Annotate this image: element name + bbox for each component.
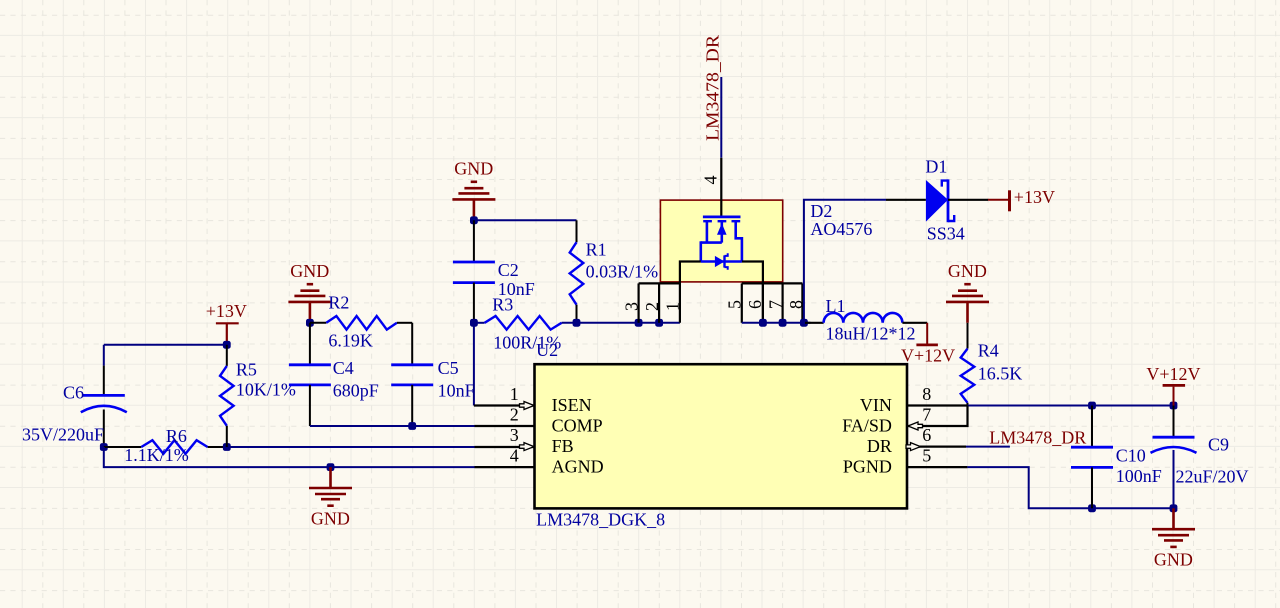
- input arrow pin3: [520, 443, 535, 451]
- ground GND (top): [473, 200, 476, 220]
- svg-text:D2: D2: [810, 201, 832, 221]
- wire FA/SD to VIN: [907, 406, 968, 427]
- node pin3 junction: [635, 319, 643, 327]
- resistor R1: [576, 220, 578, 242]
- input arrow pin1: [520, 402, 535, 410]
- resistor R2: [310, 322, 326, 324]
- pin bar 5-6-7-8: [742, 282, 803, 284]
- svg-text:ISEN: ISEN: [552, 395, 592, 415]
- ground GND (bottom right): [1172, 508, 1175, 528]
- capacitor C9: [1173, 406, 1175, 437]
- pin 4 (gate): [720, 158, 722, 217]
- power +13V right: [988, 199, 1010, 201]
- svg-text:DR: DR: [867, 436, 892, 456]
- capacitor C10: [1091, 406, 1093, 447]
- svg-text:6: 6: [922, 425, 931, 445]
- body diode of D2: [715, 256, 725, 267]
- pin bar 3-2-1: [639, 282, 680, 284]
- wire PGND net: [907, 466, 967, 468]
- node C10/PGND junction: [1088, 504, 1096, 512]
- pin 4 AGND lead: [475, 466, 535, 468]
- svg-text:C9: C9: [1208, 434, 1229, 454]
- svg-text:C10: C10: [1116, 445, 1146, 465]
- svg-text:10nF: 10nF: [438, 381, 475, 401]
- capacitor C4: [309, 323, 311, 365]
- pin 5: [741, 283, 743, 322]
- svg-text:COMP: COMP: [552, 416, 603, 436]
- wire ISEN net: [473, 323, 475, 406]
- arrow pin7 FA/SD: [908, 422, 923, 430]
- pin 3: [637, 283, 639, 322]
- svg-text:7: 7: [922, 404, 931, 424]
- pin 2 COMP lead: [475, 425, 535, 427]
- wire FB net: [227, 446, 475, 448]
- power V+12V under L1: [926, 323, 928, 344]
- svg-text:22uF/20V: 22uF/20V: [1176, 467, 1249, 487]
- diode D1 SS34: [886, 199, 926, 201]
- svg-text:7: 7: [765, 300, 785, 309]
- svg-text:0.03R/1%: 0.03R/1%: [586, 262, 659, 282]
- resistor R5: [226, 345, 228, 366]
- svg-text:C5: C5: [438, 358, 459, 378]
- svg-text:10K/1%: 10K/1%: [236, 380, 296, 400]
- svg-text:16.5K: 16.5K: [978, 364, 1023, 384]
- node pin6 junction: [759, 319, 767, 327]
- transistor D2 mosfet symbol: [703, 215, 741, 218]
- svg-text:LM3478_DR: LM3478_DR: [702, 35, 722, 141]
- svg-text:4: 4: [510, 445, 519, 465]
- resistor R6: [104, 446, 142, 448]
- svg-text:5: 5: [922, 445, 931, 465]
- inductor L1: [805, 322, 824, 324]
- resistor R3: [474, 322, 485, 324]
- svg-text:C2: C2: [498, 260, 519, 280]
- pin 6: [762, 283, 764, 322]
- svg-text:1.1K/1%: 1.1K/1%: [124, 445, 189, 465]
- wire drain bus: [742, 322, 811, 324]
- pin 7: [781, 283, 783, 322]
- node +13V/R5 junction: [223, 341, 231, 349]
- node pin2 junction: [655, 319, 663, 327]
- ground GND (R4): [966, 303, 969, 323]
- svg-text:6.19K: 6.19K: [328, 331, 373, 351]
- pin 8: [801, 283, 803, 322]
- svg-text:R3: R3: [492, 295, 513, 315]
- wire source-side black: [680, 262, 701, 323]
- svg-text:R6: R6: [166, 426, 187, 446]
- pin 2: [658, 283, 660, 322]
- wire sense bus: [562, 322, 680, 324]
- svg-text:VIN: VIN: [860, 395, 892, 415]
- svg-text:R4: R4: [978, 340, 999, 360]
- capacitor C2: [473, 220, 475, 261]
- transistor D2 body box: [660, 200, 782, 282]
- svg-text:AO4576: AO4576: [810, 219, 872, 239]
- pin 3 FB lead: [475, 446, 535, 448]
- capacitor C6: [103, 345, 105, 366]
- svg-text:U2: U2: [536, 340, 558, 360]
- node R2/C4 junction: [306, 319, 314, 327]
- wire gate net: [720, 77, 722, 158]
- power +13V left: [216, 322, 239, 324]
- svg-text:18uH/12*12: 18uH/12*12: [826, 324, 916, 344]
- svg-text:D1: D1: [925, 156, 947, 176]
- svg-text:V+12V: V+12V: [901, 346, 955, 366]
- node C9/PGND junction: [1170, 504, 1178, 512]
- svg-text:35V/220uF: 35V/220uF: [22, 424, 104, 444]
- node C5/COMP junction: [408, 422, 416, 430]
- power V+12V right: [1173, 387, 1175, 406]
- svg-text:1: 1: [662, 302, 682, 311]
- svg-text:PGND: PGND: [843, 457, 892, 477]
- wire switch node up to D1: [804, 200, 886, 323]
- node R1/bus junction: [573, 319, 581, 327]
- svg-text:R5: R5: [236, 360, 257, 380]
- svg-text:C6: C6: [63, 382, 84, 402]
- svg-text:GND: GND: [948, 261, 987, 281]
- svg-text:+13V: +13V: [1014, 187, 1055, 207]
- wire COMP net: [310, 425, 475, 427]
- svg-text:GND: GND: [290, 261, 329, 281]
- node pin7 junction: [779, 319, 787, 327]
- svg-text:3: 3: [510, 425, 519, 445]
- svg-text:AGND: AGND: [552, 457, 604, 477]
- node C10/VIN junction: [1088, 402, 1096, 410]
- resistor R4: [967, 323, 969, 349]
- wire AGND net: [104, 447, 475, 467]
- svg-text:V+12V: V+12V: [1146, 364, 1200, 384]
- wire VIN net: [907, 404, 968, 406]
- IC U2 LM3478 body: [535, 364, 908, 508]
- arrow pin6 DR: [906, 443, 921, 451]
- wire DR net: [907, 446, 966, 448]
- node R5/R6/FB junction: [223, 443, 231, 451]
- node C6/FB junction: [100, 443, 108, 451]
- svg-text:1: 1: [510, 384, 519, 404]
- svg-text:GND: GND: [1154, 550, 1193, 570]
- node C9/VIN junction: [1170, 402, 1178, 410]
- node C2/R3/ISEN junction: [470, 319, 478, 327]
- svg-text:8: 8: [922, 384, 931, 404]
- svg-text:SS34: SS34: [927, 224, 965, 244]
- svg-text:4: 4: [701, 176, 721, 185]
- svg-text:2: 2: [510, 404, 519, 424]
- svg-text:+13V: +13V: [206, 301, 247, 321]
- node pin8/D2 junction: [800, 319, 808, 327]
- svg-text:FA/SD: FA/SD: [842, 416, 892, 436]
- svg-text:GND: GND: [311, 508, 350, 528]
- svg-text:8: 8: [786, 300, 806, 309]
- svg-text:R1: R1: [586, 240, 607, 260]
- svg-text:C4: C4: [333, 358, 354, 378]
- node GND/C2 junction: [470, 216, 478, 224]
- svg-text:680pF: 680pF: [333, 381, 379, 401]
- svg-text:5: 5: [724, 300, 744, 309]
- svg-text:2: 2: [642, 302, 662, 311]
- ground GND (R2): [309, 303, 312, 323]
- svg-text:FB: FB: [552, 436, 574, 456]
- wire +13V rail: [104, 344, 227, 346]
- svg-text:3: 3: [621, 302, 641, 311]
- wire drain-side black: [742, 262, 763, 323]
- node AGND/GND junction: [327, 463, 335, 471]
- capacitor C5: [411, 323, 413, 365]
- svg-text:100nF: 100nF: [1116, 466, 1162, 486]
- svg-text:R2: R2: [328, 293, 349, 313]
- svg-text:6: 6: [745, 300, 765, 309]
- ground GND (AGND): [329, 467, 332, 487]
- svg-text:LM3478_DR: LM3478_DR: [989, 428, 1086, 448]
- svg-text:L1: L1: [826, 296, 846, 316]
- svg-text:GND: GND: [454, 159, 493, 179]
- svg-text:LM3478_DGK_8: LM3478_DGK_8: [536, 510, 665, 530]
- pin 1 ISEN lead: [474, 404, 535, 406]
- wire GND to R1 top: [474, 219, 577, 221]
